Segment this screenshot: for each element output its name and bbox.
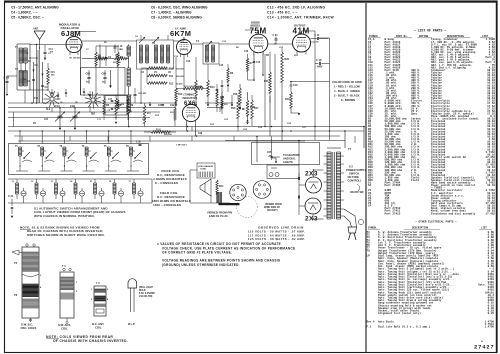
svg-text:R24: R24 [219,185,224,188]
dial light bulb [128,279,155,326]
variable capacitor C1B [70,105,80,130]
inductor L1 with trimmer [12,179,27,203]
resistor R1 with cap C2 [95,46,124,74]
svg-text:— LIST OF PARTS —: — LIST OF PARTS — [413,29,446,33]
svg-text:1 MF 200 V.: 1 MF 200 V. [176,145,188,147]
svg-text:SWITCHES SHOWN IN SHORT WAVE: SWITCHES SHOWN IN SHORT WAVE POSITION. [27,233,105,237]
svg-text:C19: C19 [293,84,298,87]
switch S1 section D with coil [82,144,99,171]
svg-text:C8B: C8B [86,74,91,76]
svg-text:≈: ≈ [481,340,483,344]
inductor L-osc coil winding [127,45,130,127]
svg-text:27427: 27427 [474,344,495,351]
svg-text:S.W. ANT.: S.W. ANT. [58,323,71,327]
capacitor C24 [273,34,279,46]
svg-text:Spec.: Spec. [411,112,419,115]
resistor R16 horizontal [144,130,176,137]
color code note [332,80,362,102]
svg-text:LIGHTS: LIGHTS [283,160,293,164]
resistor R1a left [47,63,56,91]
svg-text:125 VOLTS - 69 WATTS - .62 AMP: 125 VOLTS - 69 WATTS - .62 AMP. [248,237,305,241]
other electrical parts heading [368,221,492,230]
svg-text:R 15 100,000 OHM: R 15 100,000 OHM [184,86,202,88]
resistor R21 vertical [264,52,271,103]
svg-text:C4 - 1,600KC. – –: C4 - 1,600KC. – – [11,11,38,15]
svg-text:COIL: COIL [61,327,68,331]
note coils viewed from rear [46,335,128,343]
svg-text:T5: T5 [14,261,18,265]
svg-text:R1 100,000: R1 100,000 [70,58,82,60]
capacitor C10 [311,35,329,44]
svg-text:RATING: RATING [419,35,429,38]
svg-text:R 20: R 20 [250,107,256,109]
svg-text:WITH CHASSIS IN NORMAL POSITIO: WITH CHASSIS IN NORMAL POSITION. [34,214,95,218]
inductor L7 with trimmer [129,179,144,203]
svg-text:R12: R12 [169,84,174,86]
wire rectifier connections [272,137,324,220]
svg-text:LIST: LIST [481,227,487,230]
potentiometer R16 volume control [231,95,259,126]
resistor R5 network [98,95,134,124]
svg-text:117 VOLTS - 64 WATTS - .60 AMP: 117 VOLTS - 64 WATTS - .60 AMP. [248,233,305,237]
svg-text:1.4756: 1.4756 [484,326,494,329]
wire heater box [252,143,320,179]
svg-text:0.25: 0.25 [488,312,495,315]
svg-text:SOCKET): SOCKET) [267,210,278,212]
IF1 trimmer arrows [139,37,212,47]
svg-text:R14: R14 [210,86,215,89]
wire long verticals right section [225,52,365,162]
ground symbols row [149,85,249,125]
inductor L6 with trimmer [109,179,124,203]
tube V1 6J8M modulator-oscillator [59,23,82,56]
resistor R14 small vertical [170,103,176,127]
wire antenna coil frame [17,44,38,90]
parts list column headers [368,35,493,38]
coil assembly T2 BC antenna coil [91,282,109,330]
svg-text:DESCRIPTION: DESCRIPTION [412,227,429,230]
power plug [344,209,364,240]
svg-text:LP: LP [367,255,371,258]
svg-text:R5B: R5B [115,56,120,58]
speaker with field coil [190,163,240,205]
resistor R10 horizontal [141,67,184,103]
wire switch bank feed lines [8,179,152,203]
svg-text:500,000: 500,000 [164,134,172,136]
svg-text:4 - BLUE, 3 - GREEN: 4 - BLUE, 3 - GREEN [334,89,360,93]
transformer IF2 (2nd IF) [196,40,219,64]
svg-text:COIL: COIL [95,326,102,330]
variable capacitor C1A [55,105,65,130]
capacitor C12 grid [114,45,123,54]
inductor L2 with trimmer [31,179,46,203]
svg-text:C 30: C 30 [136,142,141,144]
switch S2 wafer (rotary spider) [85,92,101,116]
inductor L5 with trimmer [90,179,105,203]
capacitor C17 box [105,96,127,116]
svg-text:250,000: 250,000 [176,76,184,78]
resistor R5B 200,000 [113,56,129,65]
svg-text:T 1: T 1 [62,265,66,268]
resistor R18 vertical [233,84,241,108]
svg-text:6K7M: 6K7M [170,29,191,38]
footnote voltage readings [162,259,280,267]
svg-text:CONTROL): CONTROL) [348,180,362,183]
svg-text:110 VOLTS - 59 WATTS - .57 AMP: 110 VOLTS - 59 WATTS - .57 AMP. [248,230,305,234]
resistor R11 horizontal [147,74,184,78]
svg-text:10.18: 10.18 [487,184,495,187]
svg-text:C3 - 17,500KC. ANT. ALIGNING: C3 - 17,500KC. ANT. ALIGNING [11,6,59,10]
svg-text:2X3: 2X3 [305,171,318,178]
svg-text:Field: Field [411,178,419,182]
tube 6K7M IF amplifier [170,27,192,58]
tube V2 rectifier 2X3 (lower) [305,198,321,223]
alignment note column 2 (C6/C7/C8) [151,6,208,20]
parts list rows section 1 [368,37,495,215]
extra labels texture [23,51,270,125]
svg-text:C6 - 6,100KC. OSC. WING ALIGN: C6 - 6,100KC. OSC. WING ALIGNING [151,6,208,10]
inductor L3 with trimmer [51,179,66,203]
svg-text:C9B: C9B [102,74,107,76]
tube 41M output [293,24,311,55]
other electrical parts rows [367,230,495,315]
svg-text:C 24: C 24 [273,34,279,37]
svg-text:T7: T7 [348,147,352,151]
capacitor row above bus [51,88,91,100]
svg-text:C6 1 MF: C6 1 MF [138,93,147,95]
transformer T7 top ticks [327,147,352,151]
transformer T2 antenna coil [15,68,27,86]
resistor R12 horizontal [147,68,183,86]
svg-text:C8 - 6,100KC. SERIES ALIGNIN: C8 - 6,100KC. SERIES ALIGNING [151,16,202,20]
resistor 470 vertical [143,103,151,127]
wire B+ vertical runs [291,38,330,140]
observed line drain table [248,226,305,242]
switch S1 section E with coil [104,144,121,171]
extra junction dots [31,102,300,141]
svg-text:R11: R11 [169,76,174,78]
svg-text:Auto Dials: Auto Dials [378,320,394,324]
capacitor C30 bottom [136,142,188,147]
svg-text:100,000: 100,000 [176,69,184,71]
svg-text:R20: R20 [285,58,290,61]
svg-text:6.3V. 0.25AMP.: 6.3V. 0.25AMP. [139,292,155,295]
svg-text:C 1 B: C 1 B [4,78,10,80]
svg-text:Ø L.P.: Ø L.P. [128,323,135,326]
svg-text:— OTHER ELECTRICAL PARTS —: — OTHER ELECTRICAL PARTS — [414,221,457,224]
svg-text:200,000: 200,000 [113,62,121,64]
svg-text:S2: S2 [368,184,372,187]
wire AVC verticals with arrows [32,62,43,103]
capacitor C1B [4,76,18,96]
voice coil resistance note [153,169,187,185]
misc rows bottom [367,320,495,329]
svg-text:50,000: 50,000 [176,84,183,86]
svg-text:C13 - 456 KC. – –: C13 - 456 KC. – – [267,11,298,15]
svg-text:F.1: F.1 [367,326,372,329]
svg-text:T8: T8 [367,249,371,252]
svg-text:CONE: CONE [200,169,206,171]
svg-text:Escutcheon and dial assembly: Escutcheon and dial assembly [431,211,476,215]
svg-text:ANT.: ANT. [33,28,39,31]
svg-text:INDICATOR): INDICATOR) [183,97,198,100]
svg-text:R10: R10 [169,69,174,71]
svg-text:2 - BLUE, 7 - BLACK: 2 - BLUE, 7 - BLACK [334,94,360,98]
svg-text:B.C. ANT.: B.C. ANT. [92,322,105,326]
transformer T8 power [324,152,345,219]
svg-text:OF CORRECT GRID #2 PLATE VOLTA: OF CORRECT GRID #2 PLATE VOLTAGE. [162,251,232,255]
svg-text:Dial Lite Bulb (6.3 v., 0.3 am: Dial Lite Bulb (6.3 v., 0.3 amp.) [378,325,431,329]
wire bus row 2 [8,107,176,109]
wire bus row 6 [8,130,364,132]
switch bank S1 outer box [9,144,149,175]
svg-text:C7 - 1,400KC. – ALIGNING: C7 - 1,400KC. – ALIGNING [151,11,192,15]
svg-text:#44 OR #46): #44 OR #46) [139,295,153,298]
svg-text:8 – CONSOLES: 8 – CONSOLES [155,181,178,185]
svg-text:Part 27405: Part 27405 [385,184,401,187]
svg-text:OSC. COILS: OSC. COILS [21,326,37,330]
divider line between schematic and parts list [365,3,367,353]
resistor R22 vertical [281,48,290,96]
svg-text:R16: R16 [231,107,236,110]
svg-text:T 2: T 2 [96,282,100,285]
socket plug viewed from pin end A [230,184,246,200]
svg-text:PART No.: PART No. [396,35,408,38]
svg-text:T6: T6 [14,293,18,297]
svg-text:OF CHASSIS WITH CHASSIS INVERT: OF CHASSIS WITH CHASSIS INVERTED. [53,339,128,343]
svg-text:C 10: C 10 [315,35,320,37]
sheet number 27427 [474,340,495,351]
alignment note column 3 (C12/C13/C14) [267,6,334,20]
resistor R13 pair right of 6X6 [216,89,229,115]
wire drops into switch bank [19,130,131,143]
svg-text:400V: 400V [317,66,323,69]
sprinkled value labels [26,35,307,131]
inductor L4 with trimmer [70,179,85,203]
resistor R5A plate load [82,56,114,60]
svg-text:C 21: C 21 [8,195,14,198]
resistor R12b vertical [175,57,183,103]
wire osc verticals [66,45,100,96]
svg-text:R12: R12 [178,94,183,96]
resistor R15 horizontal above 6X6 [176,86,208,90]
svg-text:LP: LP [368,205,372,208]
svg-text:1 - RED, 5 - YELLOW: 1 - RED, 5 - YELLOW [334,85,360,89]
svg-text:S.W. B.C.: S.W. B.C. [21,323,33,327]
switch S1 wafer (rotary spider) [44,91,61,111]
wire bus row 5 (AVC) [8,126,364,128]
switch S1 section A with coil [15,144,32,171]
svg-text:C5 - 0,580KC. OSC. –: C5 - 0,580KC. OSC. – [11,16,44,20]
svg-text:END OF PLUG: END OF PLUG [209,214,228,218]
svg-text:Alignment tool (metal only): Alignment tool (metal only) [378,311,421,315]
svg-text:ON-OFF SW.: ON-OFF SW. [350,192,364,194]
svg-text:TO HEATERS: TO HEATERS [283,153,300,157]
wire plate bus top [74,30,315,50]
capacitor C25 [267,152,277,163]
resistor R13 R14 with caps near 6K7M [195,57,219,103]
svg-text:1400 – CONSOLES: 1400 – CONSOLES [153,203,181,207]
capacitor C14 trimmer [44,45,54,61]
note S1 S2 bank [20,226,105,237]
tube V1 rectifier 2X3 (upper) [305,171,322,194]
svg-text:Res.4: Res.4 [367,321,375,324]
transformer IF1 (1st IF) [137,35,174,69]
wire bus row 1 [8,102,176,104]
alignment note column 1 (C3/C4/C5) [11,6,59,20]
heater feed note [270,153,300,164]
field coil resistance note [152,191,191,207]
capacitor C16 coupling [315,59,330,69]
footnote star values [157,242,295,255]
switch S2 power note [346,166,366,195]
capacitor C21 [8,195,14,218]
resistor R21b on bus [269,93,271,96]
svg-text:SYMBOL: SYMBOL [368,227,377,230]
svg-text:VIEWED FROM PIN: VIEWED FROM PIN [207,211,232,215]
tube 75M diode detector [249,21,268,56]
svg-text:R19: R19 [285,98,290,101]
svg-text:17.452: 17.452 [485,212,495,215]
svg-text:C 12: C 12 [118,46,123,48]
svg-text:C25: C25 [267,152,272,154]
svg-text:BULB: BULB [139,290,146,292]
svg-text:AND DIAL: AND DIAL [283,157,296,161]
wire bus row 3 [8,111,160,113]
small caps on buses lower [22,136,234,141]
svg-text:R18: R18 [233,94,238,96]
antenna [33,28,45,49]
svg-text:C14 - 1,000KC. ANT. TRIMMER,: C14 - 1,000KC. ANT. TRIMMER, R4CW [267,16,334,20]
parts list heading [413,29,446,33]
wire bus row 8 [18,140,305,142]
wires under 75M pins [248,54,264,81]
svg-text:(GROUND) UNLESS OTHERWISE INDI: (GROUND) UNLESS OTHERWISE INDICATED. [162,263,240,267]
switch S1 section B with coil [37,144,54,171]
svg-text:(DIAL LIGHT: (DIAL LIGHT [139,286,153,289]
svg-text:COLOR CODE OF GRID: COLOR CODE OF GRID [332,80,362,84]
capacitor C2a on AVC line [27,64,48,89]
svg-text:C 16: C 16 [316,59,322,62]
svg-text:8 - BROWN: 8 - BROWN [341,98,355,102]
svg-text:VIEWED FROM: VIEWED FROM [265,204,282,206]
oscillator coil box [81,68,126,96]
switch S1 section F with coil [126,144,143,171]
capacitor C6 vertical feed [134,88,147,103]
svg-text:Part 27412: Part 27412 [385,212,401,215]
resistor R20 vertical [246,92,255,122]
svg-text:C12 - 456 KC. 2ND I.F. ALIGN: C12 - 456 KC. 2ND I.F. ALIGNING [267,6,326,10]
switch S1 section C with coil [59,144,76,171]
wire vertical interconnects [14,41,276,131]
tube 6X6 tuning indicator [182,94,199,125]
coil assembly T1 SW antenna coil [58,265,78,331]
socket plug viewed from pin end B [253,181,271,199]
junction dots on buses [36,102,330,131]
wire bus row 7 [14,135,340,137]
wires under 6X6 [187,124,203,137]
svg-text:WIRE SIDE OF: WIRE SIDE OF [264,207,281,209]
resistor R7 and diode load [221,54,254,95]
svg-text:OBSERVED LINE DRAIN: OBSERVED LINE DRAIN [258,226,304,230]
capacitor C19 + resistor R19 [285,81,300,116]
coil assembly T5 T6 SW-BC oscillator coils [12,244,42,330]
wire grid line to 6J8M [30,44,66,103]
switch arrangement caption [34,207,126,218]
wire bus row 4 [8,117,150,119]
caption viewed from pin end of plug [207,197,282,219]
transformer T1 antenna coil [15,46,27,63]
